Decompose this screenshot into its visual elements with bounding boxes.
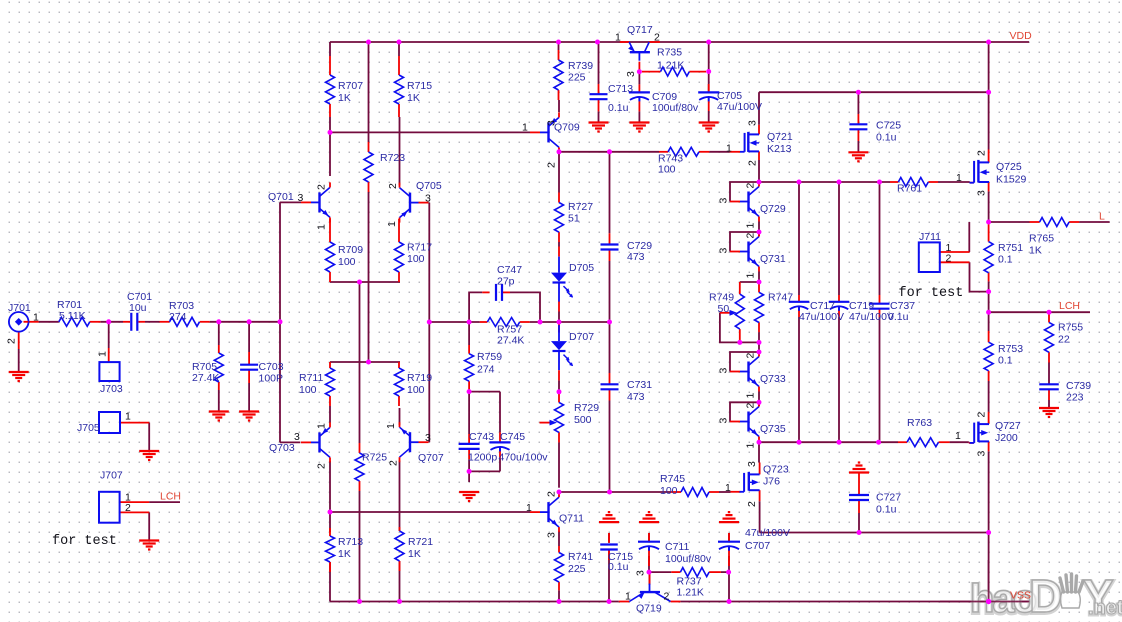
- svg-text:1: 1: [725, 482, 731, 494]
- svg-text:LCH: LCH: [1059, 300, 1080, 312]
- svg-text:.net: .net: [1088, 597, 1122, 619]
- svg-text:2: 2: [388, 460, 400, 466]
- svg-text:1: 1: [526, 502, 532, 514]
- svg-text:LCH: LCH: [160, 490, 181, 502]
- svg-text:R717: R717: [407, 241, 432, 253]
- svg-text:J707: J707: [100, 469, 123, 481]
- svg-text:1: 1: [745, 273, 757, 279]
- svg-text:2: 2: [745, 233, 757, 239]
- svg-text:R721: R721: [408, 536, 433, 548]
- svg-text:5.11K: 5.11K: [59, 310, 86, 322]
- svg-text:1: 1: [33, 311, 39, 323]
- svg-text:47u/100V: 47u/100V: [717, 101, 762, 113]
- svg-text:R747: R747: [768, 291, 793, 303]
- svg-text:K1529: K1529: [996, 173, 1027, 185]
- svg-text:100uf/80v: 100uf/80v: [665, 553, 712, 565]
- svg-text:R761: R761: [897, 182, 922, 194]
- svg-text:C745: C745: [500, 431, 525, 443]
- svg-text:51: 51: [568, 212, 580, 224]
- svg-text:R727: R727: [568, 201, 593, 213]
- svg-text:L: L: [1099, 210, 1105, 222]
- svg-text:100: 100: [299, 384, 317, 396]
- svg-text:1: 1: [385, 423, 397, 429]
- svg-text:R755: R755: [1058, 321, 1083, 333]
- svg-text:R759: R759: [477, 351, 502, 363]
- svg-text:1: 1: [316, 423, 328, 429]
- svg-text:R723: R723: [380, 152, 405, 164]
- svg-text:Q707: Q707: [418, 452, 444, 464]
- svg-text:3: 3: [747, 120, 759, 126]
- svg-text:100: 100: [407, 253, 425, 265]
- svg-text:2: 2: [946, 252, 952, 264]
- svg-text:3: 3: [746, 461, 758, 467]
- svg-text:for test: for test: [899, 286, 964, 301]
- svg-text:0.1u: 0.1u: [608, 561, 629, 573]
- svg-text:Q735: Q735: [760, 423, 786, 435]
- svg-text:3: 3: [625, 71, 637, 77]
- svg-text:J200: J200: [995, 432, 1018, 444]
- svg-text:2: 2: [125, 502, 131, 514]
- svg-text:Q729: Q729: [760, 203, 786, 215]
- svg-text:100: 100: [658, 163, 676, 175]
- svg-text:for test: for test: [52, 534, 117, 549]
- svg-text:2: 2: [976, 150, 988, 156]
- svg-text:Q725: Q725: [996, 161, 1022, 173]
- svg-text:1: 1: [955, 430, 961, 442]
- svg-text:J76: J76: [763, 475, 780, 487]
- svg-text:1: 1: [316, 224, 328, 230]
- svg-text:100P: 100P: [259, 372, 284, 384]
- svg-text:47u/100V: 47u/100V: [799, 311, 844, 323]
- svg-text:27.4K: 27.4K: [497, 334, 524, 346]
- svg-text:0.1u: 0.1u: [876, 131, 897, 143]
- svg-text:500: 500: [574, 414, 592, 426]
- svg-text:0.1: 0.1: [998, 253, 1013, 265]
- svg-text:VSS: VSS: [1010, 590, 1031, 602]
- svg-text:274: 274: [169, 311, 187, 323]
- svg-text:2: 2: [546, 162, 558, 168]
- svg-text:C743: C743: [469, 431, 494, 443]
- svg-text:3: 3: [718, 418, 730, 424]
- svg-text:1: 1: [97, 351, 109, 357]
- svg-text:470u/100v: 470u/100v: [499, 451, 549, 463]
- svg-text:R715: R715: [407, 80, 432, 92]
- svg-text:2: 2: [745, 183, 757, 189]
- svg-text:3: 3: [976, 451, 988, 457]
- svg-text:R735: R735: [657, 46, 682, 58]
- svg-text:Q711: Q711: [559, 512, 584, 524]
- svg-text:J705: J705: [77, 422, 100, 434]
- svg-text:R711: R711: [299, 372, 323, 384]
- svg-text:1: 1: [726, 142, 732, 154]
- svg-text:1: 1: [956, 172, 962, 184]
- svg-text:1.21K: 1.21K: [677, 586, 704, 598]
- svg-text:C711: C711: [665, 541, 689, 553]
- svg-text:C713: C713: [608, 83, 633, 95]
- svg-text:2: 2: [746, 501, 758, 507]
- svg-text:3: 3: [718, 248, 730, 254]
- svg-text:2: 2: [745, 403, 757, 409]
- svg-text:Q727: Q727: [995, 420, 1021, 432]
- svg-text:R725: R725: [362, 451, 387, 463]
- svg-text:1K: 1K: [407, 92, 420, 104]
- svg-text:C707: C707: [745, 540, 770, 552]
- svg-text:K213: K213: [767, 143, 792, 155]
- svg-text:3: 3: [546, 120, 558, 126]
- svg-text:J711: J711: [919, 231, 941, 243]
- svg-text:1: 1: [745, 443, 757, 449]
- svg-text:C731: C731: [627, 379, 652, 391]
- svg-text:10u: 10u: [129, 302, 147, 314]
- svg-text:D707: D707: [569, 331, 594, 343]
- svg-text:C739: C739: [1066, 380, 1091, 392]
- svg-text:D705: D705: [569, 262, 594, 274]
- svg-text:2: 2: [664, 590, 670, 602]
- svg-text:1: 1: [745, 223, 757, 229]
- svg-text:100uf/80v: 100uf/80v: [652, 102, 699, 114]
- svg-text:1K: 1K: [338, 92, 351, 104]
- svg-text:1K: 1K: [408, 548, 421, 560]
- svg-text:47u/100V: 47u/100V: [745, 527, 790, 539]
- svg-text:100: 100: [338, 256, 356, 268]
- svg-text:100: 100: [407, 384, 425, 396]
- svg-text:1: 1: [386, 221, 398, 227]
- svg-text:0.1u: 0.1u: [888, 311, 909, 323]
- svg-text:R765: R765: [1029, 232, 1054, 244]
- svg-text:473: 473: [627, 391, 645, 403]
- svg-text:R763: R763: [907, 417, 932, 429]
- svg-text:R707: R707: [338, 80, 363, 92]
- svg-text:Q701: Q701: [268, 191, 294, 203]
- svg-text:473: 473: [627, 251, 645, 263]
- svg-text:C747: C747: [497, 264, 522, 276]
- svg-text:1.21K: 1.21K: [657, 59, 684, 71]
- svg-text:3: 3: [976, 190, 988, 196]
- svg-text:R729: R729: [574, 402, 599, 414]
- svg-text:3: 3: [635, 570, 647, 576]
- svg-text:Q709: Q709: [554, 121, 580, 133]
- svg-text:0.1u: 0.1u: [608, 102, 629, 114]
- svg-text:225: 225: [568, 71, 586, 83]
- svg-text:0.1u: 0.1u: [876, 503, 897, 515]
- svg-text:2: 2: [387, 183, 399, 189]
- svg-text:1: 1: [615, 31, 621, 43]
- svg-text:R709: R709: [338, 244, 363, 256]
- svg-text:1: 1: [745, 393, 757, 399]
- svg-text:R749: R749: [709, 291, 734, 303]
- svg-text:Q723: Q723: [763, 463, 789, 475]
- svg-text:Q719: Q719: [636, 602, 662, 614]
- svg-text:1200p: 1200p: [468, 451, 497, 463]
- svg-text:1: 1: [625, 590, 631, 602]
- svg-text:0.1: 0.1: [998, 354, 1013, 366]
- svg-text:3: 3: [425, 192, 431, 204]
- svg-text:Q733: Q733: [760, 373, 786, 385]
- svg-text:1: 1: [125, 410, 131, 422]
- svg-text:274: 274: [477, 363, 495, 375]
- svg-text:Q721: Q721: [767, 131, 793, 143]
- svg-text:2: 2: [745, 353, 757, 359]
- svg-text:J703: J703: [100, 383, 123, 395]
- svg-text:3: 3: [294, 431, 300, 443]
- svg-text:Q731: Q731: [760, 253, 786, 265]
- svg-text:3: 3: [718, 198, 730, 204]
- svg-text:R739: R739: [568, 60, 593, 72]
- svg-text:Q717: Q717: [627, 24, 653, 36]
- svg-text:100: 100: [660, 485, 678, 497]
- svg-text:27p: 27p: [497, 275, 515, 287]
- svg-text:R751: R751: [998, 242, 1023, 254]
- svg-text:R741: R741: [568, 551, 593, 563]
- svg-text:R713: R713: [338, 536, 363, 548]
- svg-text:1K: 1K: [1029, 244, 1042, 256]
- svg-text:R753: R753: [998, 343, 1023, 355]
- svg-text:2: 2: [747, 160, 759, 166]
- svg-text:2: 2: [654, 31, 660, 43]
- svg-text:C703: C703: [259, 361, 284, 373]
- svg-text:C725: C725: [876, 119, 901, 131]
- svg-text:50: 50: [718, 303, 730, 315]
- svg-text:C727: C727: [876, 491, 901, 503]
- svg-text:Q703: Q703: [269, 442, 295, 454]
- svg-text:2: 2: [316, 184, 328, 190]
- svg-text:223: 223: [1066, 391, 1084, 403]
- svg-text:1K: 1K: [338, 548, 351, 560]
- svg-text:3: 3: [718, 368, 730, 374]
- svg-text:R745: R745: [660, 473, 685, 485]
- svg-text:Q705: Q705: [416, 180, 442, 192]
- svg-text:2: 2: [546, 491, 558, 497]
- svg-text:22: 22: [1058, 333, 1070, 345]
- svg-text:3: 3: [425, 432, 431, 444]
- svg-text:2: 2: [6, 338, 18, 344]
- svg-text:1: 1: [522, 121, 528, 133]
- svg-text:VDD: VDD: [1010, 30, 1033, 42]
- svg-text:2: 2: [316, 463, 328, 469]
- svg-text:D: D: [1029, 570, 1061, 622]
- svg-text:225: 225: [568, 563, 586, 575]
- svg-text:3: 3: [546, 532, 558, 538]
- svg-text:J701: J701: [8, 302, 31, 314]
- svg-text:R719: R719: [407, 372, 432, 384]
- svg-text:2: 2: [976, 412, 988, 418]
- svg-text:27.4K: 27.4K: [192, 372, 219, 384]
- svg-text:3: 3: [298, 192, 304, 204]
